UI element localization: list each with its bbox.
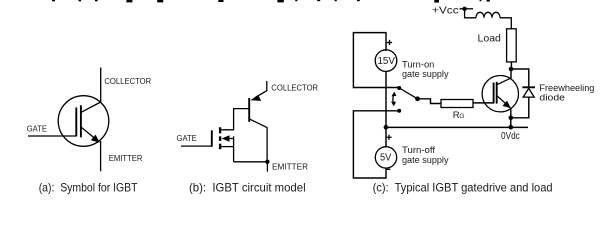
IGBT gate bar (a) — [75, 108, 77, 137]
collector diagonal (a) — [81, 102, 101, 112]
label GATE (b) — [177, 134, 198, 143]
emitter wire (c) — [510, 108, 512, 128]
label COLLECTOR (b) — [271, 84, 318, 93]
IGBT gate bar (c) — [493, 83, 495, 104]
junction dot collector node — [509, 67, 514, 72]
emitter terminal stub (b) — [266, 162, 268, 172]
caption (a) — [39, 180, 138, 194]
MOSFET gate electrode bar (b) — [211, 130, 213, 147]
gate wire (b) — [181, 145, 212, 147]
source V2 5V — [375, 147, 396, 168]
0V rail — [386, 126, 528, 128]
wire Vcc node down to inductor — [465, 9, 476, 18]
collector wire (a) — [100, 68, 102, 103]
label Turn-off gate supply — [402, 145, 449, 166]
switch bottom contact dot — [397, 109, 401, 113]
svg-text:0Vdc: 0Vdc — [501, 131, 520, 142]
svg-text:COLLECTOR: COLLECTOR — [271, 84, 318, 93]
collector terminal wire (b) — [266, 81, 268, 91]
15V negative bus wire — [385, 71, 387, 127]
emitter diagonal with arrowhead (a) — [81, 127, 100, 143]
svg-text:(b): IGBT circuit model: (b): IGBT circuit model — [189, 180, 306, 194]
svg-text:diode: diode — [539, 92, 565, 102]
inductor L1 (Load) — [476, 12, 500, 17]
svg-text:GATE: GATE — [27, 125, 48, 134]
label Turn-on gate supply — [402, 59, 449, 80]
wire inductor to load resistor — [500, 18, 511, 29]
label 0Vdc — [501, 131, 520, 142]
junction dot (b) — [265, 160, 269, 164]
wire diode to emitter junction — [511, 97, 529, 118]
cropped text fragments at top edge — [52, 0, 490, 3]
switch common junction dot — [415, 96, 420, 101]
svg-text:Freewheeling: Freewheeling — [539, 83, 594, 93]
svg-text:COLLECTOR: COLLECTOR — [104, 77, 151, 86]
load resistor R1 — [507, 29, 517, 62]
svg-text:gate supply: gate supply — [402, 155, 449, 166]
IGBT Q2 circle (c) — [482, 76, 518, 112]
resistor RG — [441, 100, 473, 108]
label Load — [478, 34, 502, 45]
caption (c) — [373, 180, 553, 194]
freewheeling diode D1 — [522, 87, 535, 97]
label GATE (a) — [27, 125, 48, 134]
svg-text:15V: 15V — [377, 56, 395, 67]
switch toggle double arrow — [391, 92, 396, 107]
turn-off supply loop wire — [353, 111, 397, 178]
MOSFET channel segments (b) — [219, 127, 221, 149]
turn-on supply loop wire — [353, 33, 397, 88]
wire load resistor to collector node — [510, 62, 512, 69]
collector diagonal (c) — [497, 78, 511, 85]
gate wire from RG to IGBT (c) — [473, 102, 494, 104]
label EMITTER (a) — [109, 154, 143, 163]
MOSFET source/body vertical wire (b) — [233, 136, 235, 162]
svg-text:(c): Typical IGBT gatedrive a: (c): Typical IGBT gatedrive and load — [373, 180, 553, 194]
label EMITTER (b) — [272, 163, 308, 172]
BJT collector diagonal (b) — [250, 119, 268, 128]
wire switch common to RG — [418, 99, 442, 104]
plus sign 15V — [387, 40, 392, 45]
junction dot rail emitter — [509, 125, 514, 130]
MOSFET drain lead to BJT base (b) — [221, 109, 249, 130]
svg-text:+Vcc: +Vcc — [432, 6, 459, 17]
svg-text:5V: 5V — [380, 153, 392, 164]
MOSFET body arrow (b) — [222, 135, 234, 141]
emitter diagonal with arrowhead (c) — [497, 96, 511, 109]
collector wire (c) — [510, 69, 512, 78]
switch blade — [399, 88, 417, 99]
emitter wire (a) — [100, 141, 102, 171]
BJT Q1 base bar (b) — [248, 98, 250, 122]
IGBT body bar (a) — [80, 105, 82, 137]
BJT emitter diagonal with arrowhead, to collector terminal (b) — [250, 91, 266, 101]
wire 0V rail to 5V plus — [385, 127, 387, 147]
svg-text:GATE: GATE — [177, 134, 198, 143]
label RG — [453, 110, 465, 121]
minus sign 5V — [386, 168, 390, 170]
label COLLECTOR (a) — [104, 77, 151, 86]
svg-text:Load: Load — [478, 34, 502, 45]
label Freewheeling diode — [539, 83, 594, 103]
label +Vcc — [432, 6, 459, 17]
svg-text:EMITTER: EMITTER — [109, 154, 143, 163]
wire collector node to diode — [511, 69, 529, 86]
caption (b) — [189, 180, 306, 194]
source V1 15V — [375, 50, 397, 72]
gate wire (a) — [28, 135, 76, 137]
svg-text:gate supply: gate supply — [402, 69, 449, 80]
IGBT U1 circle (a) — [58, 96, 109, 147]
svg-text:EMITTER: EMITTER — [272, 163, 308, 172]
svg-text:G: G — [459, 113, 464, 120]
BJT collector wire down (b) — [266, 127, 268, 162]
Vcc wire — [460, 8, 474, 10]
junction dot rail left — [384, 125, 389, 130]
plus sign 5V — [386, 135, 391, 140]
junction dot diode-emitter — [509, 116, 514, 121]
IGBT body bar (c) — [496, 82, 498, 104]
source-emitter rail (b) — [234, 161, 268, 163]
switch top contact dot — [397, 86, 401, 90]
svg-text:(a): Symbol for IGBT: (a): Symbol for IGBT — [39, 180, 138, 194]
junction dot Vcc node — [462, 7, 466, 11]
MOSFET source lead (b) — [221, 146, 233, 148]
